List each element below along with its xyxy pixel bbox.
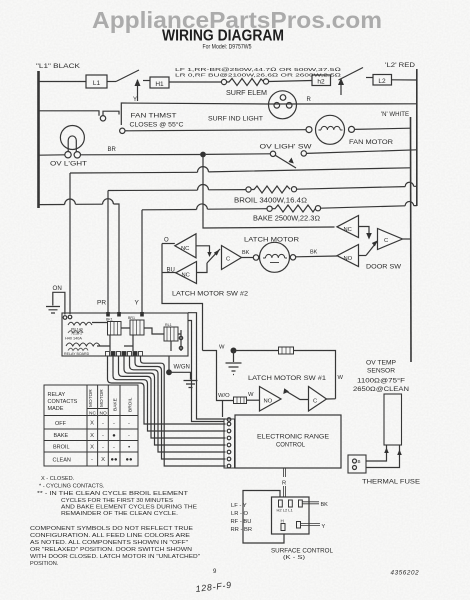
wire bundle from board to ERC connector	[108, 356, 226, 424]
contact LATCH SW1 C	[309, 387, 327, 412]
wire row1 left	[39, 81, 87, 83]
ground (latch sw1)	[226, 363, 242, 375]
wire BK to door NO	[296, 255, 337, 258]
resistor BROIL element	[246, 187, 251, 192]
wire W/O branch to connector	[222, 401, 224, 418]
table RELAY CONTACTS	[44, 385, 138, 466]
wire fan motor feed	[125, 130, 306, 131]
wire ov light row	[39, 154, 65, 156]
wire W/GN	[168, 356, 170, 372]
relay contact BAKE relay	[108, 322, 122, 336]
legend notes	[30, 476, 200, 567]
terminal block L1	[86, 75, 107, 88]
junction node W	[231, 348, 237, 354]
resistor SURF ELEM	[221, 79, 226, 84]
wire sensor leads	[366, 445, 387, 461]
wire	[206, 153, 270, 156]
terminal block L2	[373, 75, 392, 86]
contact DOOR SW C	[378, 229, 403, 250]
relay board U1	[62, 313, 188, 356]
wire BAKE row	[142, 209, 267, 210]
terminal block H1	[150, 77, 169, 88]
contact LATCH SW2 NC lower	[162, 272, 176, 274]
wire row from bus to PR vertical (with hops)	[39, 204, 120, 313]
switch SW2 (surface unit switch right)	[340, 79, 342, 95]
wire row W (full width) with hop	[70, 168, 411, 173]
pin Y	[297, 522, 301, 529]
contact LATCH SW2 C	[222, 246, 242, 270]
wire	[269, 81, 312, 82]
relay coil K1	[68, 322, 92, 325]
wire BROIL row	[108, 189, 246, 192]
contact LATCH SW1 NO	[260, 387, 282, 412]
contact LATCH SW2 NC upper	[162, 243, 175, 245]
wire	[169, 81, 222, 83]
wire vertical from row W to relay board	[69, 173, 71, 314]
wire to L2 bus	[307, 150, 417, 154]
contact DOOR SW NO	[337, 245, 359, 267]
switch arm latch sw2	[207, 249, 220, 263]
lamp SURF IND LIGHT	[269, 91, 297, 119]
board top connector pins	[106, 312, 110, 317]
wire BK	[302, 502, 319, 504]
thermostat FAN THMST	[100, 116, 105, 121]
ground (ON)	[46, 307, 60, 314]
control unit ELECTRONIC RANGE CONTROL	[235, 415, 341, 468]
resistor BAKE element	[267, 206, 272, 211]
switch arm latch sw1	[285, 391, 309, 400]
node L1 bus (left, BLACK)	[37, 71, 40, 208]
switch arm door	[366, 241, 378, 256]
board bottom connector pin row	[106, 352, 143, 357]
switch SW1 (surface unit switch)	[116, 70, 139, 82]
relay contact BROIL relay	[130, 320, 144, 335]
wire row2 left	[39, 111, 100, 116]
ERC connector J1	[224, 419, 235, 468]
wire board right elbow 2	[188, 321, 224, 422]
wire Y control arrow	[137, 80, 139, 101]
wire row2 right, node R	[269, 103, 417, 105]
wire thermostat top to ind light	[121, 103, 268, 113]
relay contact latch relay	[164, 327, 178, 341]
contact DOOR SW NC	[337, 216, 359, 238]
motor FAN MOTOR	[306, 127, 312, 133]
wire board internals	[92, 323, 181, 352]
thermal fuse connector	[348, 455, 366, 473]
control unit SURFACE CONTROL	[272, 497, 310, 534]
wire	[392, 79, 417, 81]
junction node BR	[200, 152, 206, 158]
resistor W/O	[234, 397, 247, 404]
wire surface control loop	[243, 491, 284, 544]
wire ON jumper	[53, 292, 65, 314]
ground (W/GN)	[184, 381, 198, 388]
wire from BR junction down to door switch NC	[203, 155, 335, 229]
wire latch sw2 input bracket	[162, 244, 203, 351]
wire BR	[81, 154, 201, 156]
motor LATCH MOTOR	[253, 255, 258, 260]
wire from board right to connector	[188, 313, 226, 419]
wire R to surface control	[284, 468, 286, 497]
lamp OV LIGHT	[60, 126, 84, 150]
sensor OV TEMP SENSOR	[384, 394, 402, 445]
terminal block H2	[312, 75, 331, 86]
node N bus (WHITE)	[410, 117, 413, 362]
node L2 bus (right, RED)	[416, 69, 418, 206]
switch OV LIGHT SW	[270, 151, 275, 156]
wire W loop top	[203, 351, 234, 401]
resistor R (latch)	[237, 350, 279, 352]
wire	[107, 81, 116, 83]
